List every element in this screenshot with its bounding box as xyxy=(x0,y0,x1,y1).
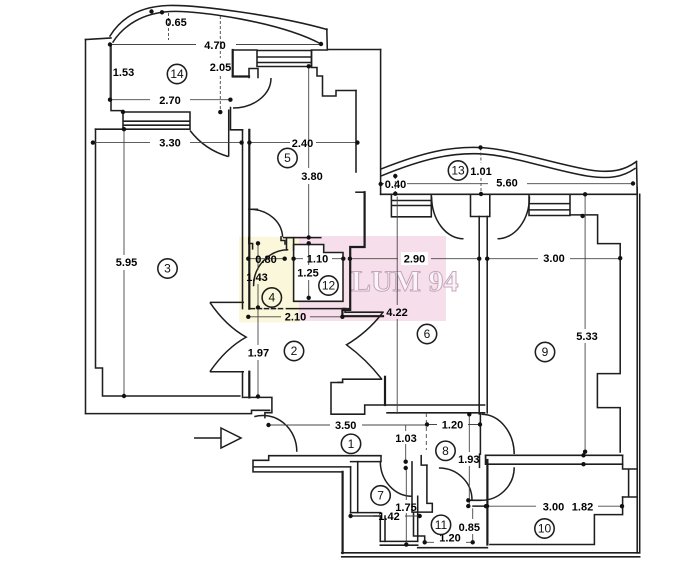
wall stub between xyxy=(480,454,486,467)
dim 5.95 xyxy=(123,129,125,396)
wall y=316.2 bottom of block xyxy=(342,315,383,317)
svg-text:13: 13 xyxy=(451,164,465,178)
svg-text:8: 8 xyxy=(442,444,449,458)
svg-text:3: 3 xyxy=(164,262,171,276)
dim 3.30 xyxy=(93,142,242,144)
room7 walls xyxy=(351,462,358,513)
svg-text:2.10: 2.10 xyxy=(285,312,306,324)
svg-text:1.20: 1.20 xyxy=(442,420,463,432)
middle pier xyxy=(471,194,490,216)
room10 top wall double xyxy=(486,455,623,464)
svg-text:1.97: 1.97 xyxy=(248,348,269,360)
wall room7/room11 xyxy=(412,462,432,542)
balcony13 left wall xyxy=(355,91,357,173)
room10 bottom xyxy=(490,497,623,545)
svg-text:1.82: 1.82 xyxy=(572,502,593,514)
room6 door from balcony xyxy=(432,197,464,239)
svg-text:0.65: 0.65 xyxy=(165,17,186,29)
room4 dashed bottom + room12 floor lower line xyxy=(251,308,286,310)
hall/room8 top wall pieces xyxy=(421,456,427,465)
room8 doors double arc xyxy=(482,414,515,454)
dims 0.80 1.10 2.90 3.00 row y=258.7 xyxy=(248,258,620,260)
wall room12/room6 thick xyxy=(356,191,365,193)
dim 1.25 xyxy=(308,243,310,297)
dim 1.01 xyxy=(480,148,482,195)
svg-text:5.60: 5.60 xyxy=(496,178,517,190)
dashed partition hall/8 xyxy=(425,413,427,450)
dim 5.60 + 0.40 xyxy=(381,183,633,185)
dim 4.70 xyxy=(110,44,321,46)
balcony 14 right closure xyxy=(326,29,329,50)
room5 bottom door leaf+arc xyxy=(249,208,258,210)
svg-text:14: 14 xyxy=(170,67,184,81)
dim 1.53 xyxy=(109,45,111,100)
room3 wall double (right) xyxy=(242,130,244,309)
left double door (room3-room2) xyxy=(210,302,244,371)
shaft at room4 top right xyxy=(287,238,294,250)
dim 1.75 xyxy=(405,468,407,545)
svg-text:3.80: 3.80 xyxy=(301,171,322,183)
room7 door xyxy=(380,456,412,497)
svg-text:2.70: 2.70 xyxy=(159,95,180,107)
svg-text:3.50: 3.50 xyxy=(335,420,356,432)
balcony 14 inner curve xyxy=(113,11,321,44)
svg-text:7: 7 xyxy=(377,488,384,502)
svg-text:9: 9 xyxy=(542,345,549,359)
svg-text:5.95: 5.95 xyxy=(116,257,137,269)
dim 3.00/1.82 room10 xyxy=(486,505,622,507)
room14 window band xyxy=(96,112,191,129)
dim 1.42 xyxy=(351,515,420,517)
svg-text:3.00: 3.00 xyxy=(543,253,564,265)
svg-text:12: 12 xyxy=(322,279,336,293)
dim 5.33 xyxy=(584,194,586,451)
svg-text:1.43: 1.43 xyxy=(246,272,267,284)
entrance door arc xyxy=(254,415,297,451)
wall x=380.6 down to balcony13 xyxy=(380,50,382,195)
dim 4.22 xyxy=(396,197,398,415)
wall y=194.3 along balcony 13 xyxy=(381,193,638,195)
dim 2.40 xyxy=(249,142,357,144)
svg-text:1.42: 1.42 xyxy=(378,511,399,523)
dim 0.65 dashes xyxy=(168,13,170,40)
svg-text:1.03: 1.03 xyxy=(395,433,416,445)
dim 1.93 xyxy=(468,414,470,506)
door arc B (into room5) xyxy=(233,78,271,108)
hall bottom walls xyxy=(253,456,381,472)
wall y=237.6 (room5 bottom) xyxy=(284,237,321,239)
svg-text:3.00: 3.00 xyxy=(543,502,564,514)
svg-text:10: 10 xyxy=(538,522,552,536)
dim 2.10 xyxy=(248,316,342,318)
room 14 left wall xyxy=(111,45,123,111)
outer left wall xyxy=(85,40,87,414)
dim 3.50 / 1.20 xyxy=(269,424,481,427)
door arc room4 xyxy=(254,250,289,286)
svg-text:4: 4 xyxy=(268,291,275,305)
wall between 6 and 9 xyxy=(479,217,487,415)
wall top of room5 right xyxy=(327,49,380,51)
left outer wall bottom block xyxy=(342,472,344,553)
room8 vertical hinge xyxy=(479,414,481,454)
top-left outer corner xyxy=(86,38,112,40)
dim 1.20 room11 xyxy=(425,541,473,543)
bottom outer band xyxy=(342,553,640,557)
room12 outline xyxy=(294,245,343,302)
svg-text:2.40: 2.40 xyxy=(292,138,313,150)
svg-text:0.80: 0.80 xyxy=(255,254,276,266)
dim 2.05 xyxy=(219,16,221,112)
right outer wall xyxy=(637,188,640,554)
svg-text:4.22: 4.22 xyxy=(386,307,407,319)
svg-text:1.10: 1.10 xyxy=(307,254,328,266)
wall y=76 + step xyxy=(233,75,249,77)
svg-text:1.53: 1.53 xyxy=(113,67,134,79)
svg-text:0.85: 0.85 xyxy=(459,522,480,534)
balcony 14 outer curve xyxy=(110,5,327,36)
room10 right niche xyxy=(623,455,638,497)
highlight room 4 block (yellow) xyxy=(239,237,299,323)
wall below door B xyxy=(231,108,243,130)
svg-text:LUM 94: LUM 94 xyxy=(351,265,459,298)
svg-text:5: 5 xyxy=(284,151,291,165)
svg-text:3.30: 3.30 xyxy=(159,138,180,150)
room6 top window xyxy=(391,194,431,217)
svg-text:5.33: 5.33 xyxy=(576,331,597,343)
svg-text:11: 11 xyxy=(435,518,448,532)
right double door room2-room6 xyxy=(347,312,384,379)
door arc room14-room3 xyxy=(190,110,229,157)
room9 top window xyxy=(529,194,570,215)
top-right window of room5 xyxy=(257,50,327,67)
room 12 interior white xyxy=(295,246,324,301)
room9 top right step xyxy=(570,215,620,452)
room9 bottom wall double xyxy=(485,455,487,464)
svg-text:4.70: 4.70 xyxy=(204,40,225,52)
room11 door xyxy=(439,468,472,500)
watermark band (pink) xyxy=(293,236,446,321)
svg-text:2.90: 2.90 xyxy=(404,254,425,266)
dim 3.80 xyxy=(308,66,310,237)
dim 1.03 xyxy=(405,425,407,462)
svg-text:1: 1 xyxy=(348,437,355,451)
balcony 13 curves xyxy=(382,147,637,171)
room9 door from balcony xyxy=(498,197,530,239)
wall between 14 and 5 top xyxy=(232,50,234,76)
room11 bottom xyxy=(418,547,488,549)
svg-text:6: 6 xyxy=(424,327,431,341)
room2 bottom-left walls xyxy=(244,397,272,417)
svg-text:2: 2 xyxy=(291,344,298,358)
svg-text:1.93: 1.93 xyxy=(458,454,479,466)
svg-text:2.05: 2.05 xyxy=(210,62,231,74)
entrance outer wall + jamb xyxy=(86,410,270,413)
svg-text:0.40: 0.40 xyxy=(385,179,406,191)
wall chunk 11/10 xyxy=(468,500,487,506)
dim 0.85 xyxy=(472,508,474,542)
hall top walls xyxy=(331,383,485,415)
entrance arrow xyxy=(194,428,241,448)
wall x=385 room2/hall xyxy=(384,377,386,405)
svg-text:1.01: 1.01 xyxy=(470,166,491,178)
svg-text:1.25: 1.25 xyxy=(297,268,318,280)
dim 1.43 / 1.97 xyxy=(257,243,259,396)
room10 left wall xyxy=(486,460,488,545)
stepped outline top middle xyxy=(312,51,357,97)
dim 2.70 xyxy=(110,99,230,101)
room3 top inner xyxy=(96,129,240,396)
